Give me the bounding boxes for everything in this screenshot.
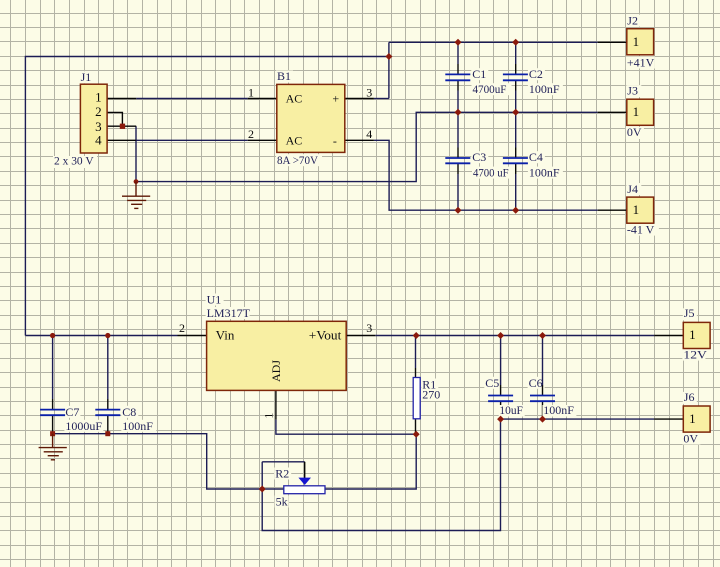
svg-text:3: 3 <box>366 321 372 335</box>
svg-text:C2: C2 <box>529 67 543 81</box>
svg-text:2: 2 <box>95 104 102 119</box>
svg-text:100nF: 100nF <box>543 403 574 417</box>
svg-text:0V: 0V <box>683 432 698 446</box>
svg-text:2 x 30 V: 2 x 30 V <box>54 154 94 168</box>
svg-text:AC: AC <box>286 134 303 148</box>
svg-text:1: 1 <box>689 411 696 426</box>
svg-text:J1: J1 <box>81 70 92 84</box>
svg-text:4700 uF: 4700 uF <box>473 166 509 180</box>
svg-text:J2: J2 <box>627 14 638 28</box>
svg-text:12V: 12V <box>683 348 707 362</box>
svg-text:4700uF: 4700uF <box>473 82 507 96</box>
svg-text:Vin: Vin <box>216 328 235 343</box>
svg-text:C3: C3 <box>472 150 486 164</box>
svg-text:AC: AC <box>286 91 303 105</box>
svg-text:5k: 5k <box>276 494 288 508</box>
svg-text:100nF: 100nF <box>529 166 560 180</box>
svg-text:C8: C8 <box>122 405 136 419</box>
svg-text:+41V: +41V <box>627 56 655 70</box>
svg-text:10uF: 10uF <box>499 403 523 417</box>
svg-text:100nF: 100nF <box>529 82 560 96</box>
svg-text:1: 1 <box>261 413 275 419</box>
svg-text:J6: J6 <box>684 390 695 404</box>
svg-text:100nF: 100nF <box>122 419 153 433</box>
svg-text:C4: C4 <box>529 150 543 164</box>
svg-text:1000uF: 1000uF <box>65 419 102 433</box>
svg-text:J4: J4 <box>627 182 638 196</box>
svg-text:C7: C7 <box>65 405 79 419</box>
svg-text:LM317T: LM317T <box>207 306 251 320</box>
svg-text:ADJ: ADJ <box>269 360 283 382</box>
svg-text:C6: C6 <box>529 376 543 390</box>
svg-text:4: 4 <box>366 127 372 141</box>
svg-text:1: 1 <box>633 202 640 217</box>
svg-text:1: 1 <box>633 104 640 119</box>
svg-text:1: 1 <box>95 90 102 105</box>
svg-text:0V: 0V <box>627 125 642 139</box>
svg-text:C5: C5 <box>485 376 499 390</box>
svg-text:J3: J3 <box>627 84 638 98</box>
svg-text:+Vout: +Vout <box>309 328 342 343</box>
svg-text:8A >70V: 8A >70V <box>277 153 318 167</box>
svg-text:B1: B1 <box>277 69 291 83</box>
svg-text:1: 1 <box>248 85 254 99</box>
svg-text:1: 1 <box>689 327 696 342</box>
svg-text:2: 2 <box>248 127 254 141</box>
svg-text:+: + <box>332 92 339 106</box>
svg-text:-: - <box>333 134 337 148</box>
svg-text:1: 1 <box>633 34 640 49</box>
svg-text:3: 3 <box>366 85 372 99</box>
svg-text:U1: U1 <box>207 292 222 306</box>
svg-text:-41 V: -41 V <box>627 223 655 237</box>
svg-text:C1: C1 <box>472 67 486 81</box>
svg-text:2: 2 <box>179 321 185 335</box>
svg-text:270: 270 <box>422 388 440 402</box>
svg-text:J5: J5 <box>684 306 695 320</box>
svg-text:4: 4 <box>95 133 102 148</box>
svg-text:R2: R2 <box>275 467 289 481</box>
